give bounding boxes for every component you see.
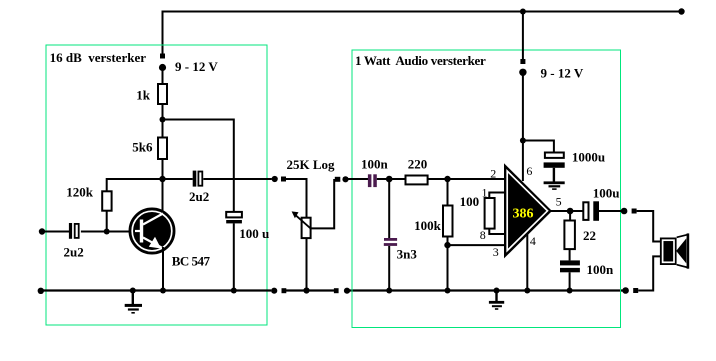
node pot rail dot xyxy=(303,287,309,293)
node ground tap left xyxy=(130,288,136,294)
svg-text:100k: 100k xyxy=(414,218,442,233)
wire 3n3 to rail xyxy=(388,246,390,291)
node output dot xyxy=(621,208,628,215)
wire 100n to rail xyxy=(569,272,571,291)
wire V+ dot to supply node xyxy=(522,74,524,141)
ground left stage xyxy=(125,291,142,314)
wire pin 8 stub xyxy=(489,229,506,234)
wire bottom ground rail xyxy=(41,289,271,291)
node rail dot left of pot xyxy=(271,288,277,294)
wire zobel to 22 xyxy=(569,211,571,221)
node 3n3 rail dot xyxy=(386,288,392,294)
node 1k/5k6 junction xyxy=(160,117,166,123)
svg-text:1: 1 xyxy=(482,185,488,199)
wire 100u to output dot xyxy=(599,210,624,212)
node stage1 output square xyxy=(281,177,286,182)
node 100u rail dot xyxy=(231,288,237,294)
capacitor C4 100n input xyxy=(361,157,389,188)
resistor R1 1k xyxy=(136,84,167,104)
node output square xyxy=(632,209,637,214)
wire top supply rail xyxy=(162,11,682,13)
capacitor C5 3n3 xyxy=(384,238,418,262)
svg-text:1 Watt Audio versterker: 1 Watt Audio versterker xyxy=(355,53,486,68)
node pin3 rail dot xyxy=(445,288,451,294)
node base junction xyxy=(104,229,110,235)
node stage1 output dot xyxy=(272,176,278,182)
wire pin 5 output xyxy=(551,210,584,212)
wire V+ dot to 1k xyxy=(162,69,164,84)
node pin4 rail dot xyxy=(524,288,530,294)
node input terminal dot xyxy=(39,228,45,234)
svg-text:100n: 100n xyxy=(587,262,615,277)
node V+ dot right xyxy=(519,69,526,76)
wire pot wiper xyxy=(311,179,335,228)
svg-text:16 dB versterker: 16 dB versterker xyxy=(50,50,147,65)
node rail left end xyxy=(38,288,44,294)
node collector junction xyxy=(159,176,165,182)
resistor R4 220 xyxy=(406,157,428,185)
wire 100k to pin3 node xyxy=(447,237,449,246)
wire pin 1 stub xyxy=(489,193,506,199)
wire box input to 100n xyxy=(348,178,368,180)
wire supply to pin 6 xyxy=(522,141,524,182)
ground IC xyxy=(489,291,504,310)
svg-text:8: 8 xyxy=(480,228,486,242)
wire square to pot top xyxy=(286,179,307,218)
svg-text:100n: 100n xyxy=(361,157,389,172)
node 3n3 junction xyxy=(386,176,393,183)
wire 220 to pin 2 xyxy=(428,178,506,180)
svg-text:BC 547: BC 547 xyxy=(172,253,211,268)
wire pin 3 xyxy=(448,244,507,246)
svg-text:9 - 12 V: 9 - 12 V xyxy=(175,59,218,74)
wire input to 2u2 xyxy=(42,231,69,233)
node rail square right of pot xyxy=(334,288,339,293)
node supply junction 1000u xyxy=(520,138,526,144)
svg-text:6: 6 xyxy=(526,164,532,178)
svg-text:386: 386 xyxy=(513,206,534,221)
resistor R5 100k xyxy=(414,206,452,237)
wire node to 100k xyxy=(447,179,449,206)
wire 100u to rail xyxy=(233,223,235,291)
wire node to 5k6 xyxy=(162,120,164,138)
svg-text:25K Log: 25K Log xyxy=(287,157,336,172)
capacitor C2 2u2 output of stage1 xyxy=(189,171,209,204)
capacitor C7 1000u xyxy=(544,149,606,167)
svg-text:22: 22 xyxy=(583,228,596,243)
wire 1k to node xyxy=(162,104,164,120)
wire V+ drop right stage xyxy=(522,11,524,60)
node V+ terminal square left xyxy=(160,54,165,59)
resistor R2 5k6 xyxy=(132,138,167,160)
node rail dot right of pot xyxy=(344,288,350,294)
transistor Q1 BC547 xyxy=(130,209,211,268)
wire emitter to ground rail xyxy=(162,247,164,291)
node V+ dot left xyxy=(159,64,166,71)
wire rail square to speaker bottom xyxy=(638,256,661,290)
node top rail right end xyxy=(678,8,684,14)
wire collector node to feedback corner xyxy=(107,179,193,192)
node top rail junction to right amp xyxy=(520,9,526,15)
wire 2u2 to base xyxy=(81,231,137,233)
wire 120k to base node xyxy=(106,211,108,232)
node emitter rail dot xyxy=(160,288,166,294)
node pin3 junction xyxy=(444,242,450,248)
wire V+ drop left stage xyxy=(162,11,164,54)
node rail square left of pot xyxy=(282,288,287,293)
wire pin3 node to rail xyxy=(447,245,449,291)
wire collector down into transistor xyxy=(162,179,164,214)
resistor R6 100 gain xyxy=(460,194,495,229)
node output junction xyxy=(567,208,574,215)
op-amp U1 386 xyxy=(504,163,552,258)
svg-text:5k6: 5k6 xyxy=(132,139,153,154)
wire node down to 3n3 xyxy=(388,179,390,239)
svg-text:4: 4 xyxy=(530,234,536,248)
svg-text:100: 100 xyxy=(460,194,480,209)
wire pin 4 to rail xyxy=(526,234,528,291)
capacitor C8 100u output xyxy=(583,185,619,220)
node rail right end dot xyxy=(622,287,629,294)
node 100k top junction xyxy=(444,176,450,182)
node V+ terminal square right xyxy=(520,59,525,64)
capacitor C1 2u2 input xyxy=(64,223,84,259)
svg-text:100u: 100u xyxy=(593,185,620,200)
svg-text:120k: 120k xyxy=(66,184,94,199)
node wiper dot xyxy=(342,176,348,182)
svg-text:220: 220 xyxy=(408,157,428,172)
svg-text:2u2: 2u2 xyxy=(189,189,209,204)
wire output square to speaker top xyxy=(637,211,661,242)
ground 1000u xyxy=(544,168,565,190)
node IC ground tap xyxy=(494,288,500,294)
box 16 dB versterker xyxy=(46,45,267,325)
svg-text:2u2: 2u2 xyxy=(64,244,84,259)
speaker LS1 xyxy=(660,233,688,268)
svg-text:3: 3 xyxy=(493,245,499,259)
wire 22 to 100n xyxy=(569,249,571,260)
svg-text:1000u: 1000u xyxy=(572,149,605,164)
potentiometer P1 25K body xyxy=(292,211,311,238)
svg-text:100 u: 100 u xyxy=(239,226,269,241)
svg-text:1k: 1k xyxy=(136,87,151,102)
capacitor C3 100u decoupling xyxy=(226,212,269,241)
resistor R3 120k feedback xyxy=(66,184,111,210)
node wiper square xyxy=(335,177,341,182)
wire 2u2 to box edge output xyxy=(203,178,271,180)
box 1 Watt Audio versterker xyxy=(352,50,621,328)
capacitor C9 100n zobel xyxy=(560,260,614,276)
svg-text:2: 2 xyxy=(490,166,496,180)
wire decoupling branch to 100u xyxy=(163,120,234,213)
svg-text:9 - 12 V: 9 - 12 V xyxy=(541,65,584,80)
node rail right square xyxy=(633,288,638,293)
resistor R7 22 xyxy=(564,221,596,250)
wire supply to 1000u xyxy=(523,141,554,153)
wire 5k6 to collector node xyxy=(162,159,164,180)
svg-text:5: 5 xyxy=(556,195,562,209)
svg-text:3n3: 3n3 xyxy=(397,247,418,262)
wire 100n to node xyxy=(377,178,406,180)
node 100n rail dot xyxy=(567,288,573,294)
wire pot bottom to rail xyxy=(306,238,308,291)
